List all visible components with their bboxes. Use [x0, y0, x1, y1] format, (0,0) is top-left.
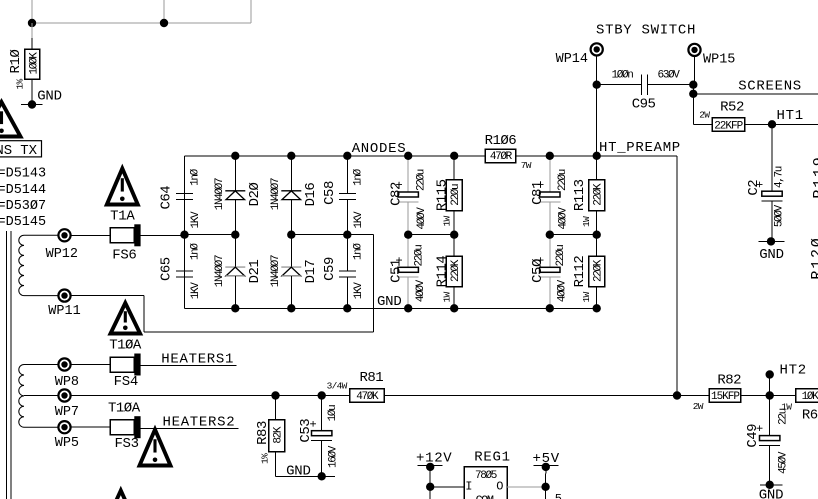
resistor R81	[327, 370, 384, 403]
svg-text:I: I	[465, 480, 472, 494]
wire	[596, 55, 598, 155]
svg-text:+: +	[308, 420, 321, 427]
resistor R115	[435, 156, 463, 235]
diode D21	[214, 235, 263, 309]
resistor R83	[255, 396, 285, 477]
junction	[593, 231, 601, 239]
svg-text:+12V: +12V	[416, 451, 452, 467]
svg-text:+: +	[394, 256, 407, 263]
svg-text:82K: 82K	[273, 426, 285, 444]
warning symbol T1A	[107, 169, 138, 225]
label MAINS TX	[0, 141, 42, 160]
wire	[71, 395, 350, 397]
wire	[597, 84, 642, 86]
svg-text:5ØØV: 5ØØV	[774, 204, 786, 227]
svg-text:1ØØK: 1ØØK	[28, 52, 40, 75]
svg-text:4ØØV: 4ØØV	[558, 207, 570, 230]
wire	[141, 234, 185, 236]
svg-text:1W: 1W	[581, 216, 592, 227]
warning symbol	[140, 430, 171, 466]
svg-text:REG1: REG1	[474, 449, 510, 465]
junction	[271, 391, 279, 399]
label HEATERS1	[161, 351, 234, 367]
svg-text:WP12: WP12	[46, 247, 78, 262]
svg-text:WP5: WP5	[55, 436, 79, 451]
svg-text:R112: R112	[572, 256, 588, 288]
capacitor C59	[322, 235, 365, 309]
label T10A	[108, 401, 141, 417]
svg-text:D17: D17	[303, 260, 319, 284]
wire	[276, 475, 335, 477]
ground	[759, 481, 784, 499]
svg-text:4,7u: 4,7u	[773, 166, 785, 188]
label HT1	[777, 108, 804, 124]
svg-text:R115: R115	[435, 179, 451, 211]
svg-text:R113: R113	[572, 179, 588, 211]
svg-text:SCREENS: SCREENS	[738, 79, 802, 95]
svg-text:1N4ØØ7: 1N4ØØ7	[270, 178, 282, 210]
svg-text:22Øu: 22Øu	[450, 184, 462, 206]
transformer winding	[19, 365, 59, 428]
junction	[689, 90, 697, 98]
junction	[231, 304, 239, 312]
junction	[343, 304, 351, 312]
svg-text:47ØR: 47ØR	[490, 151, 513, 163]
svg-text:D16: D16	[303, 183, 319, 207]
resistor R106	[485, 133, 532, 171]
svg-text:WP8: WP8	[55, 375, 79, 390]
junction	[593, 304, 601, 312]
svg-text:1N4ØØ7: 1N4ØØ7	[270, 255, 282, 287]
svg-text:=D5145: =D5145	[0, 215, 46, 230]
warning symbol	[0, 102, 21, 137]
wire	[516, 155, 677, 157]
junction	[593, 152, 601, 160]
wire	[184, 156, 186, 308]
svg-text:+: +	[536, 181, 549, 188]
svg-text:1%: 1%	[259, 453, 270, 464]
label STBY SWITCH	[596, 23, 696, 39]
wire	[405, 155, 485, 157]
resistor R52	[699, 100, 744, 133]
wire	[71, 235, 374, 332]
terminal WP15	[688, 44, 735, 68]
junction	[287, 304, 295, 312]
capacitor C65	[159, 235, 203, 309]
warning symbol T10A upper	[109, 303, 142, 354]
terminal WP7	[55, 389, 79, 420]
label SCREENS	[738, 79, 802, 95]
capacitor C49	[745, 396, 790, 485]
svg-text:=D5143: =D5143	[0, 167, 46, 182]
svg-text:22u: 22u	[778, 408, 790, 425]
svg-text:5: 5	[555, 492, 562, 499]
svg-text:R83: R83	[255, 421, 271, 445]
terminal WP8	[55, 358, 79, 389]
wire	[648, 84, 694, 86]
svg-text:WP11: WP11	[48, 304, 80, 319]
svg-text:T1ØA: T1ØA	[108, 401, 141, 417]
svg-text:GND: GND	[759, 247, 784, 263]
label R120	[809, 236, 818, 279]
svg-text:22ØK: 22ØK	[593, 183, 605, 206]
wire AC node2	[291, 234, 373, 236]
capacitor C95	[611, 70, 680, 113]
terminal WP14	[556, 43, 603, 67]
wire GND rail	[185, 307, 598, 309]
terminal WP12	[46, 229, 78, 262]
svg-text:FS3: FS3	[114, 436, 138, 452]
terminal WP5	[55, 421, 79, 451]
svg-text:WP7: WP7	[55, 405, 79, 420]
wire	[741, 395, 796, 397]
wire	[692, 85, 694, 125]
svg-text:1W: 1W	[581, 292, 592, 303]
wire	[71, 364, 111, 366]
wire	[71, 426, 111, 428]
junction	[450, 304, 458, 312]
transformer core	[7, 231, 12, 499]
svg-text:+: +	[755, 181, 768, 188]
svg-text:22Øu: 22Øu	[557, 169, 569, 191]
svg-text:4ØØV: 4ØØV	[556, 279, 568, 302]
junction	[343, 152, 351, 160]
capacitor C64	[159, 156, 203, 235]
svg-text:GND: GND	[37, 89, 62, 105]
svg-text:1nØ: 1nØ	[352, 168, 364, 186]
junction	[231, 152, 239, 160]
label HT_PREAMP	[599, 140, 681, 156]
svg-text:+: +	[394, 181, 407, 188]
capacitor C58	[322, 156, 365, 235]
svg-text:HT_PREAMP: HT_PREAMP	[599, 140, 681, 156]
svg-text:1KV: 1KV	[353, 282, 365, 300]
svg-text:R114: R114	[435, 256, 451, 288]
svg-text:C58: C58	[322, 181, 338, 205]
junction	[343, 231, 351, 239]
svg-text:1Øu: 1Øu	[327, 405, 339, 422]
svg-text:R12Ø: R12Ø	[809, 236, 818, 279]
capacitor C53	[298, 396, 339, 477]
junction	[766, 391, 774, 399]
resistor R82	[693, 372, 741, 412]
junction	[450, 231, 458, 239]
svg-text:D21: D21	[247, 260, 263, 284]
node HT2	[766, 362, 807, 395]
wire	[71, 234, 111, 236]
label part numbers	[0, 167, 46, 231]
wire	[694, 56, 696, 85]
transformer winding	[19, 235, 59, 295]
svg-text:22KFP: 22KFP	[714, 120, 743, 132]
svg-text:=D53Ø7: =D53Ø7	[0, 199, 46, 214]
junction	[231, 231, 239, 239]
junction	[287, 152, 295, 160]
svg-text:ANODES: ANODES	[352, 141, 407, 157]
junction	[28, 19, 36, 27]
svg-text:FS6: FS6	[112, 247, 136, 263]
junction	[673, 391, 681, 399]
svg-text:FS4: FS4	[114, 374, 138, 390]
power flag +12V	[416, 451, 452, 499]
wire	[430, 486, 464, 488]
svg-text:78Ø5: 78Ø5	[475, 470, 497, 482]
wire	[32, 0, 251, 23]
svg-text:1KV: 1KV	[353, 211, 365, 229]
svg-text:1KV: 1KV	[190, 282, 202, 300]
svg-text:T1A: T1A	[110, 208, 135, 224]
resistor R113	[572, 156, 605, 235]
svg-text:R119: R119	[811, 155, 818, 198]
label GND	[377, 294, 402, 310]
junction	[180, 231, 188, 239]
label R119	[811, 155, 818, 198]
svg-text:1ØK: 1ØK	[802, 391, 818, 403]
svg-text:O: O	[496, 480, 503, 494]
svg-text:1nØ: 1nØ	[352, 243, 364, 261]
svg-text:NS TX: NS TX	[0, 143, 38, 159]
junction	[404, 231, 412, 239]
junction	[404, 152, 412, 160]
svg-text:HEATERS1: HEATERS1	[161, 351, 234, 367]
svg-text:1nØ: 1nØ	[190, 243, 202, 261]
svg-text:GND: GND	[759, 488, 784, 499]
svg-text:C59: C59	[322, 257, 338, 281]
wire SCREENS	[693, 93, 818, 95]
ground	[286, 463, 326, 480]
svg-text:D2Ø: D2Ø	[247, 183, 263, 207]
svg-text:+: +	[754, 425, 767, 432]
junction	[450, 152, 458, 160]
svg-text:COM: COM	[475, 494, 493, 499]
wire AC node1	[185, 234, 237, 236]
wire	[507, 486, 545, 488]
label HEATERS2	[163, 415, 236, 431]
svg-text:+: +	[536, 256, 549, 263]
ground	[759, 237, 785, 263]
svg-text:R1Ø: R1Ø	[8, 50, 24, 74]
svg-text:3/4W: 3/4W	[327, 380, 348, 391]
capacitor C81	[530, 156, 570, 235]
svg-text:C95: C95	[632, 97, 656, 113]
fuse FS4	[110, 354, 141, 390]
wire HEATERS2	[141, 428, 239, 430]
svg-text:15KFP: 15KFP	[711, 391, 740, 403]
svg-text:45ØV: 45ØV	[778, 451, 790, 474]
junction	[689, 81, 697, 89]
junction	[160, 19, 168, 27]
resistor R114	[435, 235, 463, 309]
junction	[546, 304, 554, 312]
junction	[546, 231, 554, 239]
capacitor C82	[389, 156, 429, 235]
svg-text:1KV: 1KV	[190, 211, 202, 229]
resistor R10	[8, 23, 40, 104]
capacitor C2	[746, 124, 786, 241]
svg-text:R81: R81	[359, 370, 383, 386]
capacitor C51	[389, 235, 427, 309]
junction	[768, 120, 776, 128]
svg-text:=D5144: =D5144	[0, 183, 46, 198]
wire	[693, 123, 712, 125]
diode D17	[270, 235, 319, 309]
wire HEATERS1	[141, 365, 237, 367]
junction	[404, 304, 412, 312]
svg-text:7W: 7W	[521, 160, 532, 171]
svg-text:22ØK: 22ØK	[593, 259, 605, 282]
svg-text:4ØØV: 4ØØV	[415, 279, 427, 302]
junction	[593, 81, 601, 89]
wire	[250, 0, 252, 23]
svg-text:WP14: WP14	[556, 52, 588, 67]
svg-text:22Øu: 22Øu	[415, 169, 427, 191]
wire	[550, 234, 597, 236]
svg-text:63ØV: 63ØV	[657, 70, 680, 82]
resistor R112	[572, 235, 605, 309]
diode D20	[214, 156, 263, 235]
wire	[384, 395, 709, 397]
svg-text:T1ØA: T1ØA	[109, 338, 142, 354]
svg-text:22Øu: 22Øu	[555, 245, 567, 267]
svg-text:GND: GND	[286, 463, 311, 479]
junction	[546, 152, 554, 160]
svg-text:1N4ØØ7: 1N4ØØ7	[214, 178, 226, 210]
svg-text:2W: 2W	[693, 401, 704, 412]
warning symbol clipped	[104, 491, 137, 499]
power flag +5V	[533, 451, 563, 499]
wire	[163, 0, 165, 23]
svg-text:1N4ØØ7: 1N4ØØ7	[214, 255, 226, 287]
svg-text:47ØK: 47ØK	[356, 391, 379, 403]
svg-text:C65: C65	[159, 257, 175, 281]
svg-text:HT1: HT1	[777, 108, 804, 124]
svg-text:GND: GND	[377, 294, 402, 310]
svg-text:1%: 1%	[15, 79, 26, 90]
svg-text:1nØ: 1nØ	[190, 168, 202, 186]
svg-text:R82: R82	[717, 372, 741, 388]
resistor R61 clipped	[781, 389, 818, 424]
svg-text:STBY SWITCH: STBY SWITCH	[596, 23, 696, 39]
svg-text:HT2: HT2	[780, 362, 807, 378]
svg-text:1ØØn: 1ØØn	[611, 70, 633, 82]
diode D16	[270, 156, 319, 235]
fuse FS3	[110, 416, 141, 452]
wire ANODES rail	[185, 155, 406, 157]
svg-text:R61: R61	[802, 408, 818, 424]
wire	[745, 123, 818, 125]
svg-text:WP15: WP15	[703, 53, 735, 68]
svg-text:22ØK: 22ØK	[450, 259, 462, 282]
svg-text:1W: 1W	[441, 292, 452, 303]
ground	[21, 89, 62, 109]
svg-text:16ØV: 16ØV	[327, 445, 339, 468]
junction	[318, 391, 326, 399]
regulator REG1	[464, 449, 511, 499]
svg-text:C64: C64	[159, 186, 175, 210]
svg-text:R52: R52	[720, 100, 744, 116]
label ANODES	[352, 141, 407, 157]
svg-text:4ØØV: 4ØØV	[416, 207, 428, 230]
svg-text:22Øu: 22Øu	[414, 245, 426, 267]
svg-text:2W: 2W	[699, 110, 710, 121]
svg-text:HEATERS2: HEATERS2	[163, 415, 236, 431]
junction	[287, 231, 295, 239]
wire HT_PREAMP	[676, 156, 678, 396]
capacitor C50	[530, 235, 568, 309]
svg-text:1W: 1W	[441, 216, 452, 227]
svg-text:R1Ø6: R1Ø6	[485, 133, 517, 149]
terminal WP11	[48, 290, 80, 320]
fuse FS6	[110, 224, 141, 263]
wire	[408, 234, 454, 236]
